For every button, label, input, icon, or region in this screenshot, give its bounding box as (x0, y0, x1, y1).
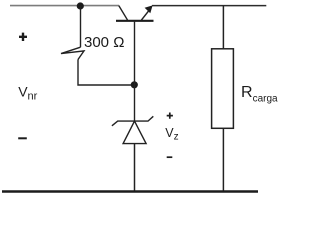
wire top rail left (10, 5, 119, 7)
label minus sign Vz (167, 156, 173, 158)
svg-text:Vnr: Vnr (18, 83, 37, 102)
svg-text:Vz: Vz (165, 126, 178, 143)
node junction dot base node (131, 81, 138, 88)
transistor Q1 base bar (116, 20, 154, 22)
transistor Q1 collector lead (119, 6, 128, 21)
wire from top dot down to resistor (80, 6, 82, 47)
zener diode DZ triangle (123, 121, 146, 144)
wire zener anode to bottom rail (134, 144, 136, 192)
transistor Q1 emitter arrowhead (145, 5, 153, 13)
zener diode DZ cathode bar with bent tips (112, 116, 153, 126)
transistor Q1 emitter lead with arrow (141, 10, 149, 20)
svg-text:300 Ω: 300 Ω (84, 34, 124, 51)
bottom rail ground bus (2, 190, 258, 193)
wire R_carga top lead (222, 6, 224, 49)
resistor R1 zigzag 300 ohm (61, 47, 84, 59)
svg-text:Rcarga: Rcarga (241, 84, 278, 105)
wire base lead vertical (134, 21, 136, 121)
wire top rail right (152, 5, 266, 7)
wire resistor bottom leg (78, 60, 135, 86)
label plus sign Vz (167, 113, 173, 119)
resistor R_carga body rectangle (212, 49, 234, 129)
wire R_carga bottom lead (222, 128, 224, 192)
node junction dot at resistor top (77, 2, 84, 9)
label plus sign Vnr (19, 33, 27, 41)
label minus sign Vnr (18, 137, 27, 139)
